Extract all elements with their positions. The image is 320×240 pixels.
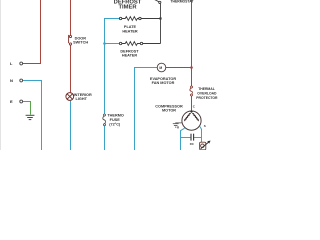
- svg-text:M: M: [159, 66, 162, 70]
- svg-text:E: E: [10, 99, 13, 104]
- svg-text:MOTOR: MOTOR: [162, 109, 176, 113]
- svg-text:(72°C): (72°C): [109, 123, 121, 127]
- svg-text:SWITCH: SWITCH: [73, 41, 88, 45]
- svg-text:HEATER: HEATER: [122, 29, 138, 33]
- svg-text:OVERLOAD: OVERLOAD: [197, 92, 217, 96]
- svg-text:THERMO: THERMO: [107, 114, 123, 118]
- svg-text:LIGHT: LIGHT: [76, 97, 88, 101]
- svg-text:THERMAL: THERMAL: [198, 87, 215, 91]
- svg-text:FUSE: FUSE: [110, 118, 121, 122]
- svg-text:FAN MOTOR: FAN MOTOR: [152, 81, 175, 85]
- svg-text:N: N: [10, 78, 13, 83]
- svg-text:TIMER: TIMER: [118, 5, 137, 11]
- svg-text:HEATER: HEATER: [122, 54, 138, 58]
- svg-text:RC: RC: [190, 142, 194, 146]
- svg-text:S: S: [204, 124, 206, 128]
- svg-text:THERMOSTAT: THERMOSTAT: [170, 0, 194, 4]
- svg-text:PROTECTOR: PROTECTOR: [196, 96, 218, 100]
